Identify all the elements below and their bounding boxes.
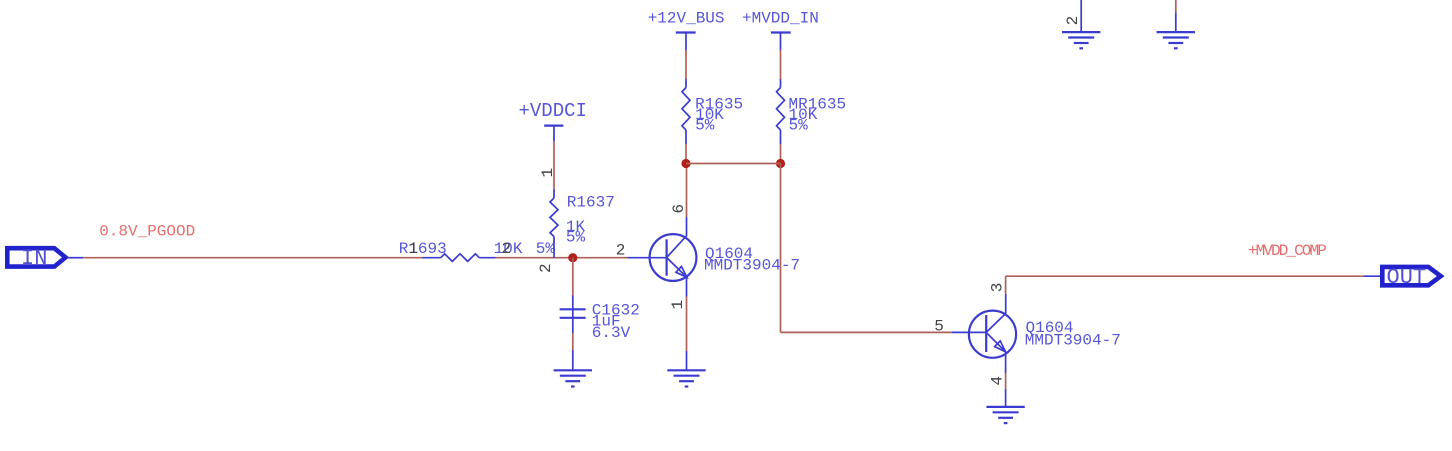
ground top-right 1	[1062, 32, 1100, 48]
wire Q1 base lead	[628, 257, 667, 259]
power symbol +VDDCI	[519, 100, 587, 141]
svg-text:5%: 5%	[789, 116, 809, 134]
wire between junction nodes	[686, 163, 781, 165]
svg-text:2: 2	[616, 242, 626, 260]
wire MR1635 node down	[780, 164, 782, 333]
wire C1632 to ground	[572, 318, 574, 371]
resistor MR1635	[777, 88, 785, 145]
wire top-right ground 2	[1175, 0, 1177, 32]
resistor R1693	[423, 254, 496, 262]
svg-text:1: 1	[539, 168, 557, 178]
wire Q2 emitter to ground	[1005, 352, 1007, 407]
capacitor C1632	[560, 309, 586, 318]
svg-text:1: 1	[409, 240, 419, 258]
svg-text:4: 4	[989, 376, 1007, 386]
svg-text:6.3V: 6.3V	[592, 324, 631, 342]
ground below Q1604 emitter	[667, 370, 705, 386]
svg-text:IN: IN	[21, 246, 47, 271]
wire Q1 emitter to ground	[686, 277, 688, 370]
transistor Q1604 (first)	[650, 234, 697, 281]
wire OUT pin stub	[1363, 275, 1381, 277]
svg-text:2: 2	[502, 240, 512, 258]
wire +VDDCI to R1637	[553, 141, 555, 189]
junction node at R1637 / C1632	[568, 253, 577, 262]
wire 0.8V_PGOOD horizontal	[83, 257, 423, 259]
svg-text:3: 3	[989, 283, 1007, 293]
ground below Q1604 (second) emitter	[986, 407, 1024, 423]
power symbol +12V_BUS	[648, 9, 725, 50]
wire Q1 collector	[686, 164, 688, 237]
svg-text:+MVDD_COMP: +MVDD_COMP	[1248, 242, 1326, 260]
power symbol +MVDD_IN	[742, 9, 819, 50]
svg-text:6: 6	[670, 204, 688, 214]
svg-text:2: 2	[1064, 16, 1082, 26]
ground top-right 2	[1157, 32, 1195, 48]
junction node at MR1635	[776, 159, 785, 168]
svg-text:5%: 5%	[566, 229, 586, 247]
junction node at R1635	[681, 159, 690, 168]
wire junction to C1632	[572, 258, 574, 318]
svg-text:R1637: R1637	[567, 194, 615, 212]
port OUT	[1382, 265, 1440, 290]
wire to Q2 base	[781, 331, 952, 333]
wire Q2 collector	[1005, 276, 1007, 313]
svg-text:5%: 5%	[536, 240, 556, 258]
svg-text:5%: 5%	[695, 116, 715, 134]
svg-text:+12V_BUS: +12V_BUS	[648, 9, 725, 27]
svg-text:0.8V_PGOOD: 0.8V_PGOOD	[99, 222, 195, 240]
svg-text:+MVDD_IN: +MVDD_IN	[742, 9, 819, 27]
svg-text:1: 1	[669, 300, 687, 310]
wire +12V_BUS to R1635	[685, 50, 687, 88]
wire +MVDD_IN to MR1635	[780, 50, 782, 88]
wire MR1635 to node	[780, 144, 782, 164]
svg-text:OUT: OUT	[1387, 265, 1427, 290]
svg-text:MMDT3904-7: MMDT3904-7	[1025, 332, 1121, 350]
wire Q2 base lead	[952, 331, 987, 333]
svg-text:MMDT3904-7: MMDT3904-7	[704, 256, 800, 274]
wire R1693 to Q1 base	[496, 257, 628, 259]
wire Q2 collector to OUT	[1006, 275, 1364, 277]
resistor R1635	[682, 88, 690, 145]
port IN	[7, 246, 65, 271]
svg-text:R1693: R1693	[399, 240, 447, 258]
ground below C1632	[554, 370, 592, 386]
svg-text:2: 2	[537, 263, 555, 273]
wire top-right ground 1	[1080, 0, 1082, 32]
svg-text:+VDDCI: +VDDCI	[519, 100, 587, 122]
resistor R1637	[550, 189, 558, 258]
wire IN pin stub	[68, 257, 83, 259]
wire R1635 to node	[685, 144, 687, 164]
svg-text:5: 5	[934, 318, 944, 336]
transistor Q1604 (second)	[969, 311, 1016, 358]
